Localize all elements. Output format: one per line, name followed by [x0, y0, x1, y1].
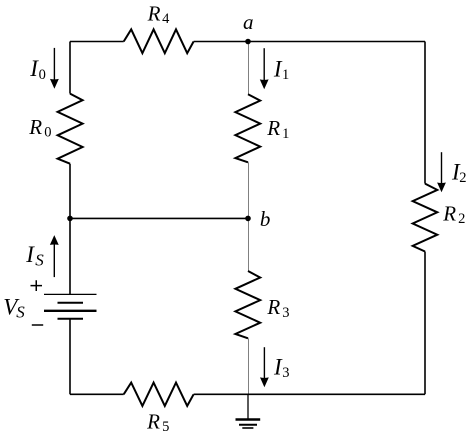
svg-text:5: 5	[162, 419, 169, 435]
svg-text:b: b	[260, 207, 271, 231]
wire R1 to b (thin gray)	[248, 162, 250, 218]
svg-text:3: 3	[282, 365, 289, 381]
battery VS plate3 long thick	[44, 310, 97, 312]
svg-text:0: 0	[44, 125, 51, 141]
svg-text:3: 3	[282, 305, 289, 321]
svg-text:S: S	[16, 302, 25, 321]
node left-mid junction	[67, 216, 73, 222]
svg-text:R: R	[147, 2, 161, 26]
arrow I3	[263, 347, 265, 378]
label minus	[32, 324, 43, 326]
svg-text:a: a	[243, 10, 254, 34]
battery VS plate4 short thick	[58, 318, 84, 320]
wire left lower	[69, 218, 71, 294]
resistor R3	[235, 271, 260, 338]
arrow I0	[53, 48, 55, 80]
battery VS plate2 short thick	[58, 302, 84, 304]
resistor R0	[58, 94, 83, 164]
wire a to R1 (thin gray)	[248, 44, 250, 94]
wire right upper	[424, 42, 426, 184]
svg-text:R: R	[442, 202, 456, 226]
wire top-left segment	[70, 41, 124, 43]
resistor R5	[124, 383, 194, 406]
wire left bottom	[69, 319, 71, 395]
svg-text:S: S	[35, 250, 44, 269]
wire bottom-left segment	[70, 393, 124, 395]
arrow I2	[441, 152, 443, 183]
svg-text:1: 1	[282, 126, 289, 142]
wire b to R3 (thin gray)	[248, 218, 250, 271]
resistor R4	[124, 29, 194, 53]
label plus	[31, 280, 43, 291]
svg-text:R: R	[266, 116, 280, 140]
node a	[245, 39, 251, 45]
wire bottom-right segment	[194, 393, 425, 395]
wire right lower	[424, 252, 426, 395]
svg-text:2: 2	[459, 170, 466, 186]
wire middle horizontal	[70, 217, 248, 219]
svg-text:4: 4	[162, 11, 170, 27]
ground	[247, 394, 249, 419]
svg-text:R: R	[146, 410, 160, 434]
wire R3 to bottom (thin gray)	[248, 338, 250, 394]
arrow IS	[53, 244, 55, 277]
svg-text:I: I	[25, 242, 35, 267]
resistor R2	[413, 184, 438, 252]
wire top-right segment	[194, 41, 425, 43]
svg-text:R: R	[266, 295, 280, 319]
resistor R1	[235, 94, 260, 162]
svg-text:0: 0	[39, 67, 46, 83]
wire left middle	[69, 164, 71, 219]
svg-text:R: R	[28, 115, 42, 139]
arrow I1	[263, 48, 265, 80]
svg-text:2: 2	[458, 211, 465, 227]
battery VS plate1 long thin	[44, 293, 97, 295]
wire left upper	[69, 42, 71, 94]
svg-text:1: 1	[282, 67, 289, 83]
node b	[245, 216, 251, 222]
